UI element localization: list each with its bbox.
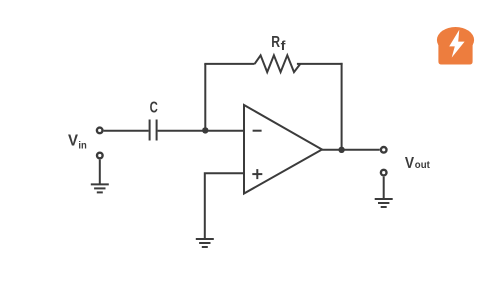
- terminal output ground circle: [381, 170, 387, 176]
- node B output junction dot: [338, 147, 344, 153]
- wire capacitor to op-amp inverting input: [158, 130, 244, 132]
- wire input ground stem: [99, 160, 101, 184]
- svg-text:C: C: [150, 100, 159, 117]
- svg-text:out: out: [415, 159, 430, 171]
- svg-text:V: V: [405, 155, 415, 172]
- capacitor C: [150, 120, 157, 141]
- wire op-amp output: [322, 149, 380, 151]
- ground at input: [91, 184, 109, 192]
- wire non-inverting input to ground: [205, 173, 244, 238]
- terminal Vout: [381, 147, 387, 153]
- node A junction dot: [202, 127, 208, 133]
- ground at output: [375, 199, 393, 207]
- ground for non-inverting input: [196, 239, 214, 247]
- wire node A up to feedback: [204, 64, 206, 131]
- svg-text:R: R: [271, 34, 280, 51]
- resistor Rf zigzag: [255, 55, 301, 72]
- svg-text:f: f: [281, 39, 287, 53]
- logo CircuitBread toast: [437, 27, 474, 65]
- wire resistor to right corner: [297, 63, 343, 65]
- terminal input ground circle: [97, 153, 103, 159]
- wire top left to resistor: [204, 63, 254, 65]
- logo lightning bolt: [449, 30, 464, 58]
- wire output ground stem: [383, 177, 385, 199]
- wire feedback vertical down to output node: [341, 63, 343, 150]
- op-amp U1 triangle: [244, 105, 322, 194]
- svg-text:in: in: [78, 140, 86, 152]
- terminal Vin: [97, 128, 103, 134]
- op-amp non-inverting input plus sign: [252, 169, 262, 179]
- op-amp inverting input minus sign: [253, 130, 262, 132]
- svg-text:V: V: [68, 132, 79, 149]
- wire input to capacitor: [104, 130, 149, 132]
